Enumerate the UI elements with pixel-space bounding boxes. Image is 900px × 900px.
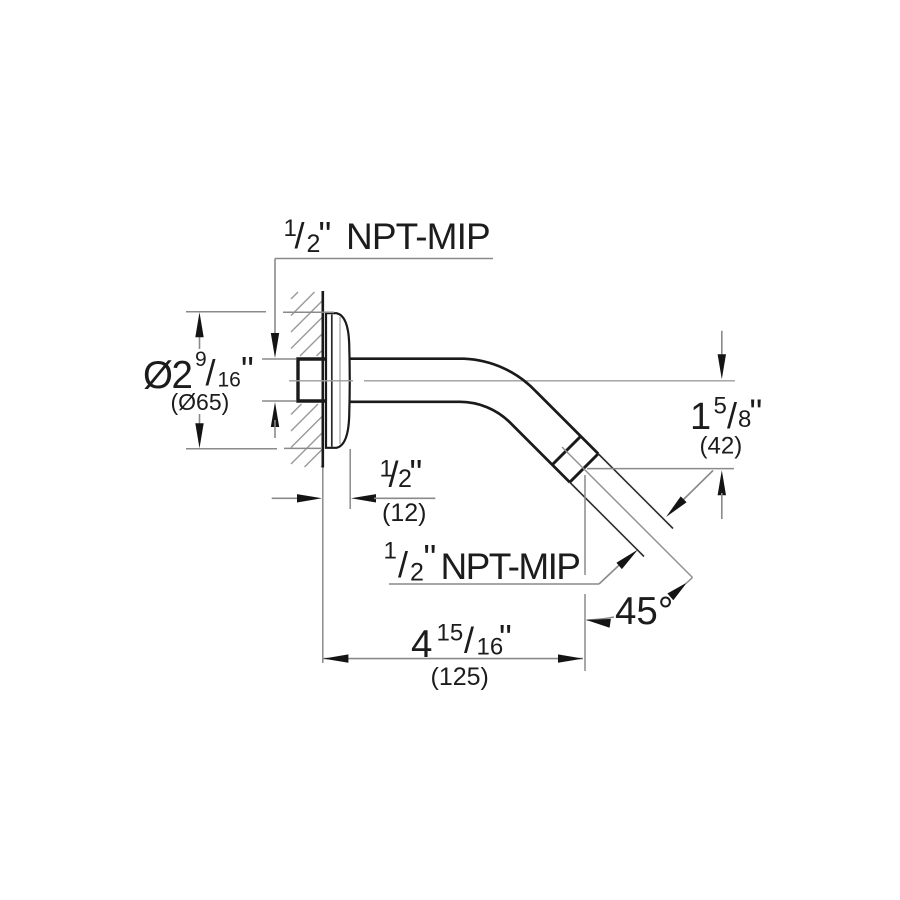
thickness dim right tail (374, 497, 435, 499)
shower arm lower edge (with bend) (349, 402, 570, 482)
label: dia 2 9/16 (65) (143, 348, 254, 415)
svg-text:/: / (206, 352, 216, 393)
label: top 1/2" NPT-MIP (284, 214, 490, 258)
lower NPT-MIP leader (599, 562, 623, 585)
svg-text:NPT-MIP: NPT-MIP (346, 216, 490, 257)
nipple lower dim arrow (271, 402, 279, 427)
arm centerline (horizontal) (289, 380, 353, 382)
label: 1/2" (12) (380, 452, 427, 527)
sleeve boundary (lower) (570, 454, 599, 483)
svg-text:": " (241, 349, 254, 390)
svg-text:": " (750, 392, 763, 433)
shower arm upper edge (with bend) (349, 359, 598, 454)
42 dim lower tail (721, 493, 723, 519)
wall face line (321, 291, 324, 468)
svg-text:(Ø65): (Ø65) (171, 389, 230, 415)
lower NPT-MIP underline (389, 583, 599, 585)
svg-text:(42): (42) (700, 433, 743, 460)
svg-text:5: 5 (714, 393, 727, 420)
top NPT-MIP label underline (275, 258, 493, 260)
escutcheon flange outline (326, 313, 350, 448)
svg-text:/: / (464, 620, 474, 661)
45deg arc left piece (587, 617, 615, 620)
svg-text:/: / (398, 544, 408, 585)
svg-text:(12): (12) (382, 499, 426, 527)
thickness dim left arrow (297, 494, 322, 502)
lower NPT-MIP leader arrow (616, 550, 638, 570)
42 dim upper arrow (718, 354, 726, 379)
top NPT-MIP leader vertical (274, 259, 276, 341)
flange face inner line (331, 315, 333, 447)
outlet centerline ray (562, 447, 693, 578)
svg-text:": " (499, 617, 512, 658)
wall face extension line (down) (322, 468, 324, 664)
42 dim upper tail (721, 331, 723, 357)
thickness dim left tail (272, 497, 300, 499)
svg-text:": " (410, 452, 423, 493)
nipple top extension line (262, 358, 297, 360)
svg-text:/: / (295, 215, 305, 256)
sleeve boundary (upper) (552, 436, 581, 465)
length dim right arrow (558, 654, 583, 662)
42 dim lower arrow (718, 470, 726, 495)
label: lower 1/2" NPT-MIP (384, 537, 580, 587)
svg-text:": " (319, 214, 332, 255)
flange face extension line (349, 449, 351, 509)
svg-text:NPT-MIP: NPT-MIP (441, 546, 580, 587)
svg-text:/: / (389, 454, 399, 495)
flange dia dim line upper segment (199, 330, 201, 349)
flange dia dim arrow down (195, 423, 203, 448)
length dim line (323, 658, 583, 660)
length dim left arrow (323, 654, 348, 662)
svg-text:2: 2 (410, 559, 424, 587)
thickness dim right arrow (351, 494, 376, 502)
svg-text:45°: 45° (615, 590, 673, 633)
flange dia dim arrow up (195, 312, 203, 337)
svg-text:15: 15 (437, 620, 464, 647)
outlet pipe lower edge (thin) (570, 482, 644, 556)
flange dia top extension line (186, 311, 266, 313)
flange dia dim line lower segment (199, 414, 201, 430)
svg-text:1: 1 (384, 538, 397, 565)
45deg left arrow (587, 619, 611, 628)
svg-text:4: 4 (411, 623, 432, 666)
label: 1 5/8" (42) (690, 392, 762, 460)
svg-text:(125): (125) (431, 663, 489, 691)
svg-text:/: / (727, 395, 737, 436)
outlet vertical extension line (584, 475, 586, 575)
45deg right arrow (667, 583, 687, 601)
outlet pipe upper edge (thin) (598, 454, 673, 529)
top NPT-MIP leader arrow (271, 333, 279, 358)
outlet end leader line (683, 471, 713, 501)
flange dia bottom extension line (186, 448, 277, 450)
flange shading line (339, 317, 341, 444)
svg-text:": " (424, 537, 437, 578)
wall hatching (291, 292, 323, 467)
outlet horizontal extension line (587, 468, 734, 470)
threaded nipple (1/2 NPT behind wall) (298, 359, 326, 401)
outlet end leader arrow (666, 496, 687, 517)
nipple bottom extension line (262, 400, 297, 402)
label: 4 15/16" (125) (411, 617, 512, 691)
